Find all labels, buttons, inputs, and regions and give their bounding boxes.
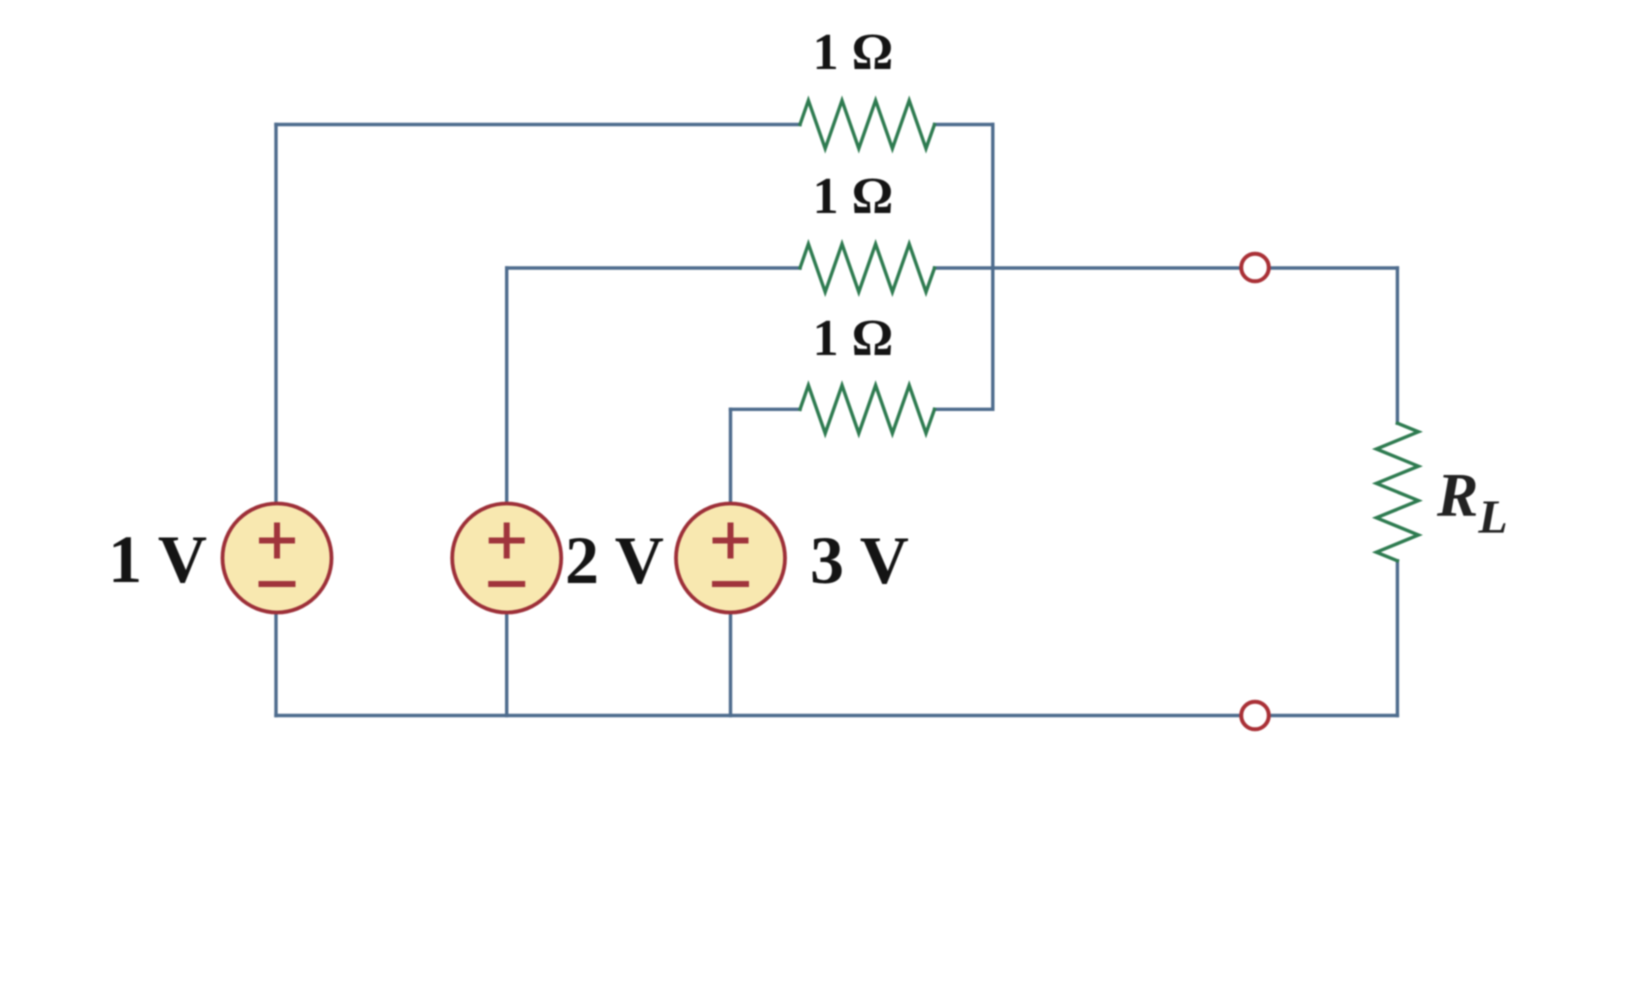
wire vertical above V2 bbox=[505, 268, 508, 505]
wire left vertical above V1 bbox=[274, 125, 277, 506]
wire top row from V1 to R1 bbox=[276, 123, 800, 126]
voltage source V2 2V bbox=[452, 504, 561, 613]
resistor RL vertical bbox=[1376, 423, 1418, 561]
resistor 1 ohm top bbox=[800, 101, 935, 149]
svg-text:1 Ω: 1 Ω bbox=[813, 168, 894, 225]
resistor 1 ohm bottom bbox=[800, 385, 935, 433]
svg-text:2 V: 2 V bbox=[565, 522, 664, 598]
wire bottom rail to terminal b bbox=[276, 714, 1397, 717]
wire vertical joining node of R1,R3 right ends bbox=[991, 125, 994, 410]
wire vertical below V2 bbox=[505, 611, 508, 716]
wire third row from V3 corner to R3 bbox=[731, 408, 801, 411]
svg-text:1 V: 1 V bbox=[108, 521, 207, 597]
wire middle row from V2 corner to R2 bbox=[507, 266, 800, 269]
resistor 1 ohm middle bbox=[800, 244, 935, 292]
svg-text:1 Ω: 1 Ω bbox=[813, 310, 894, 367]
wire middle row from R2 to terminal a and RL top bbox=[935, 266, 1398, 269]
wire top row from R1 to right vertical bbox=[935, 123, 993, 126]
wire right vertical below RL bbox=[1396, 561, 1399, 716]
wire right vertical to RL top bbox=[1396, 268, 1399, 423]
terminal node b (bottom open circle) bbox=[1241, 702, 1269, 730]
svg-text:1 Ω: 1 Ω bbox=[813, 24, 894, 81]
wire third row from R3 to vertical node bbox=[935, 408, 993, 411]
terminal node a (top open circle) bbox=[1241, 254, 1269, 282]
wire left vertical below V1 bbox=[274, 611, 277, 716]
voltage source V3 3V bbox=[676, 504, 785, 613]
wire vertical below V3 bbox=[729, 611, 732, 716]
svg-text:3 V: 3 V bbox=[810, 522, 909, 598]
voltage source V1 1V bbox=[223, 504, 332, 613]
wire vertical above V3 bbox=[729, 409, 732, 505]
